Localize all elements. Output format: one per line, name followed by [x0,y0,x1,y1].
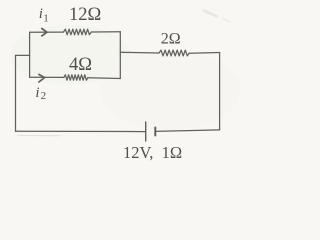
svg-text:12Ω: 12Ω [69,5,101,25]
svg-text:4Ω: 4Ω [69,55,92,75]
shadow under bottom wire [18,135,60,137]
battery short plate [154,128,156,136]
svg-text:12V, 1Ω: 12V, 1Ω [123,143,182,162]
resistor R1 12ohm zigzag [64,29,92,35]
resistor R3 2ohm zigzag [159,50,189,56]
wire inner-left vertical [29,32,31,77]
svg-text:2Ω: 2Ω [161,30,181,47]
wire top branch right segment [91,31,120,33]
wire bottom left of battery [16,130,146,132]
svg-text:i: i [35,85,39,101]
wire bottom right of battery [155,130,219,132]
wire left stub [16,54,30,56]
svg-text:2: 2 [41,90,47,102]
resistor R2 4ohm zigzag [64,75,88,80]
wire outer-left vertical [15,55,17,131]
wire outer-right vertical [219,53,221,130]
svg-text:1: 1 [43,12,49,24]
battery long plate [145,122,147,141]
arrow i2 on bottom branch [39,74,45,82]
arrow i1 on top branch [42,29,47,36]
smudge top right [203,10,218,17]
wire 2ohm branch right segment [189,52,219,55]
wire bottom branch right segment [88,77,120,80]
subtle page mottling [10,25,130,85]
wire top branch left segment [30,31,64,33]
paper background [0,0,253,163]
wire inner-right vertical [119,32,121,79]
wire 2ohm branch left segment [120,51,159,54]
wire bottom branch left segment [30,76,64,78]
